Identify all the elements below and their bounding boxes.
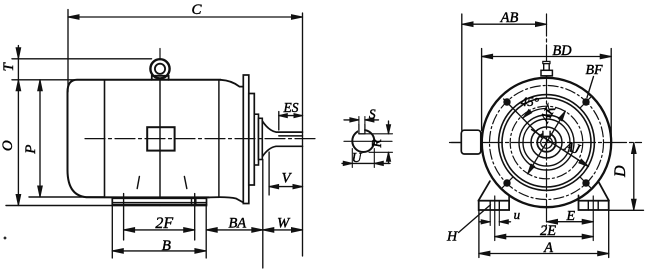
left slot centerline	[494, 196, 496, 241]
right foot slot	[587, 201, 589, 210]
2F right extension	[194, 194, 196, 241]
bolt hole lower-right	[583, 180, 589, 186]
left foot inner edge	[508, 195, 510, 200]
svg-text:H: H	[446, 230, 458, 245]
box centerline stub	[452, 142, 462, 144]
body seam line	[159, 80, 161, 206]
right foot slope	[598, 181, 609, 201]
svg-text:W: W	[277, 216, 291, 232]
flange disc 1	[243, 75, 249, 204]
flange disc 3	[254, 114, 258, 165]
svg-text:u: u	[514, 207, 521, 222]
R extension lines	[365, 133, 393, 135]
shaft inner circle	[541, 137, 553, 149]
margin dot	[4, 237, 6, 239]
left foot slot	[489, 201, 491, 210]
shaft section circle	[352, 130, 374, 152]
hub circle	[531, 127, 562, 158]
right slot centerline	[592, 196, 594, 241]
S extension lines	[358, 117, 360, 125]
45 degree radial line	[504, 99, 542, 138]
T upper line	[12, 58, 152, 60]
right foot inner edge	[578, 195, 580, 200]
R dimension line	[388, 121, 390, 134]
eyebolt base	[152, 76, 169, 80]
front view horizontal centerline	[450, 142, 642, 144]
B left extension	[111, 206, 113, 259]
45 degree arc	[523, 108, 546, 117]
svg-text:R: R	[369, 139, 384, 149]
2E dimension line	[495, 236, 594, 238]
D bottom extension	[609, 209, 644, 211]
svg-text:A: A	[543, 240, 553, 256]
base line extension	[6, 205, 112, 207]
svg-text:BA: BA	[228, 216, 246, 232]
bolt hole lower-left	[504, 180, 510, 186]
fan cover outer circle	[482, 78, 611, 207]
flange ring outer	[499, 95, 595, 191]
terminal box front view	[461, 130, 481, 154]
flange disc 2	[249, 94, 255, 186]
body top chamfer to flange	[221, 80, 244, 87]
ES dimension line	[279, 115, 303, 117]
bolt tick lower-left	[503, 177, 514, 188]
right foot block	[579, 201, 609, 210]
left foot block	[479, 201, 509, 210]
eyebolt centerline	[159, 49, 161, 60]
shaft top fillet and line	[262, 121, 302, 132]
bolt hole upper-right	[583, 99, 589, 105]
shaft end extension line	[302, 13, 304, 256]
2F left extension	[123, 194, 125, 241]
grease nipple	[543, 61, 550, 63]
section centerline	[344, 140, 392, 142]
svg-text:2F: 2F	[155, 215, 173, 232]
shaft bottom fillet and line	[262, 146, 302, 156]
flange ring inner	[502, 98, 591, 187]
W dimension line	[263, 229, 303, 231]
terminal box	[147, 127, 174, 150]
front keyway white mask	[543, 131, 550, 137]
svg-text:2E: 2E	[540, 223, 556, 239]
end-bell joint seam	[218, 80, 220, 198]
BD dimension line	[482, 56, 612, 58]
foot plate end ticks	[191, 198, 193, 205]
H leader line	[459, 205, 491, 233]
P dimension line	[39, 80, 41, 197]
A dimension line	[479, 253, 609, 255]
svg-text:BD: BD	[552, 43, 572, 59]
AB left extension	[461, 14, 463, 130]
svg-text:B: B	[162, 238, 171, 254]
bolt hole circle dashed	[490, 86, 604, 200]
BA dimension line	[206, 229, 263, 231]
front view vertical centerline	[546, 14, 548, 226]
svg-text:45°: 45°	[521, 94, 539, 109]
foot section mark left	[137, 177, 139, 189]
D dimension line	[633, 143, 635, 211]
svg-text:U: U	[352, 150, 363, 165]
svg-text:O: O	[0, 140, 16, 151]
svg-text:AB: AB	[500, 10, 519, 26]
svg-text:E: E	[566, 209, 576, 224]
svg-text:D: D	[612, 165, 629, 178]
left foot slope	[478, 181, 490, 201]
AJ bolt circle dashed	[510, 106, 583, 179]
svg-text:P: P	[23, 145, 39, 155]
shaft centerline	[85, 138, 316, 140]
S dimension line	[344, 119, 359, 121]
T O dimension line	[17, 46, 19, 206]
BD right extension	[610, 49, 612, 140]
ES extension line	[278, 112, 280, 131]
V extension line	[268, 152, 270, 195]
U dimension line	[342, 162, 390, 164]
eyebolt ring	[150, 59, 169, 78]
motor body side view outline	[68, 80, 221, 198]
bolt tick lower-right	[580, 177, 591, 188]
B dimension line	[112, 250, 206, 252]
svg-text:ES: ES	[283, 100, 299, 115]
dimension C line	[68, 16, 303, 18]
BF leader line	[587, 77, 594, 98]
B BA shared extension	[205, 206, 207, 259]
U extension lines	[351, 149, 353, 168]
2F dimension line	[124, 229, 195, 231]
A left extension	[478, 210, 480, 258]
body top extension line	[12, 79, 105, 81]
A right extension	[608, 210, 610, 258]
bolt tick upper-right	[580, 97, 591, 108]
flange disc 4	[259, 118, 263, 159]
svg-text:BF: BF	[585, 63, 603, 78]
shaft circle front	[537, 133, 556, 152]
BD left extension	[481, 49, 483, 131]
body bottom curve to flange	[209, 197, 243, 202]
shaft keyway	[358, 125, 360, 134]
BA right extension flange face	[262, 160, 264, 269]
AJ leader line	[532, 130, 589, 167]
u dimension arrows	[479, 221, 490, 223]
foot base plate	[112, 198, 206, 205]
AK diameter line	[528, 111, 566, 174]
V dimension line	[269, 186, 302, 188]
shaft keyseat line	[279, 135, 303, 137]
foot section mark right	[184, 177, 186, 189]
body bottom extension line	[29, 196, 105, 198]
spigot circle inner	[523, 119, 570, 166]
AB dimension line	[462, 23, 547, 25]
shaft key white mask	[358, 128, 364, 134]
front keyway	[542, 131, 544, 136]
svg-text:C: C	[191, 2, 202, 18]
E dimension line	[547, 221, 594, 223]
u extension lines	[489, 210, 491, 226]
svg-text:S: S	[369, 106, 376, 121]
bolt hole upper-left	[504, 99, 510, 105]
C left extension line	[67, 10, 69, 93]
spigot circle outer	[519, 115, 574, 170]
